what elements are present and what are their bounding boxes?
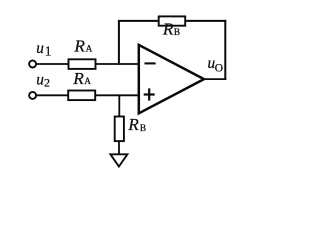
wire RA2 to non-inverting input [95, 94, 138, 96]
terminal u1 [29, 61, 36, 68]
svg-text:1: 1 [45, 44, 52, 59]
resistor RA2 body [68, 91, 95, 101]
wire RB2 bottom to ground [118, 141, 120, 155]
wire feedback vertical left (node A down to inverting wire) [118, 21, 120, 65]
svg-text:A: A [84, 77, 91, 87]
svg-text:2: 2 [44, 76, 50, 90]
terminal u2 [29, 92, 36, 99]
svg-text:R: R [127, 115, 139, 134]
resistor RA1 body [69, 59, 96, 69]
wire u1 terminal to RA1 [36, 63, 69, 65]
svg-text:B: B [174, 28, 180, 38]
ground [110, 154, 127, 166]
svg-text:A: A [86, 44, 93, 54]
wire feedback right vertical down to output node [224, 20, 226, 80]
wire u2 terminal to RA2 [36, 94, 69, 96]
wire output from op-amp apex to node uO [204, 78, 227, 80]
svg-text:R: R [162, 19, 174, 38]
op-amp U1 triangle [139, 45, 204, 113]
op-amp non-inverting pin plus sign [144, 88, 155, 100]
wire RA1 to inverting input [96, 63, 139, 65]
resistor RB1 body (feedback) [159, 16, 186, 25]
svg-text:O: O [215, 63, 223, 75]
wire junction to RB2 top [118, 94, 120, 116]
wire feedback top left segment [118, 20, 159, 22]
svg-text:u: u [36, 40, 44, 57]
op-amp inverting pin minus sign [145, 62, 156, 64]
resistor RB2 body (to ground) [115, 117, 124, 142]
wire feedback top right segment [185, 20, 227, 22]
svg-text:R: R [73, 36, 85, 55]
svg-text:R: R [72, 69, 84, 88]
svg-text:u: u [36, 71, 44, 88]
svg-text:B: B [140, 124, 146, 134]
